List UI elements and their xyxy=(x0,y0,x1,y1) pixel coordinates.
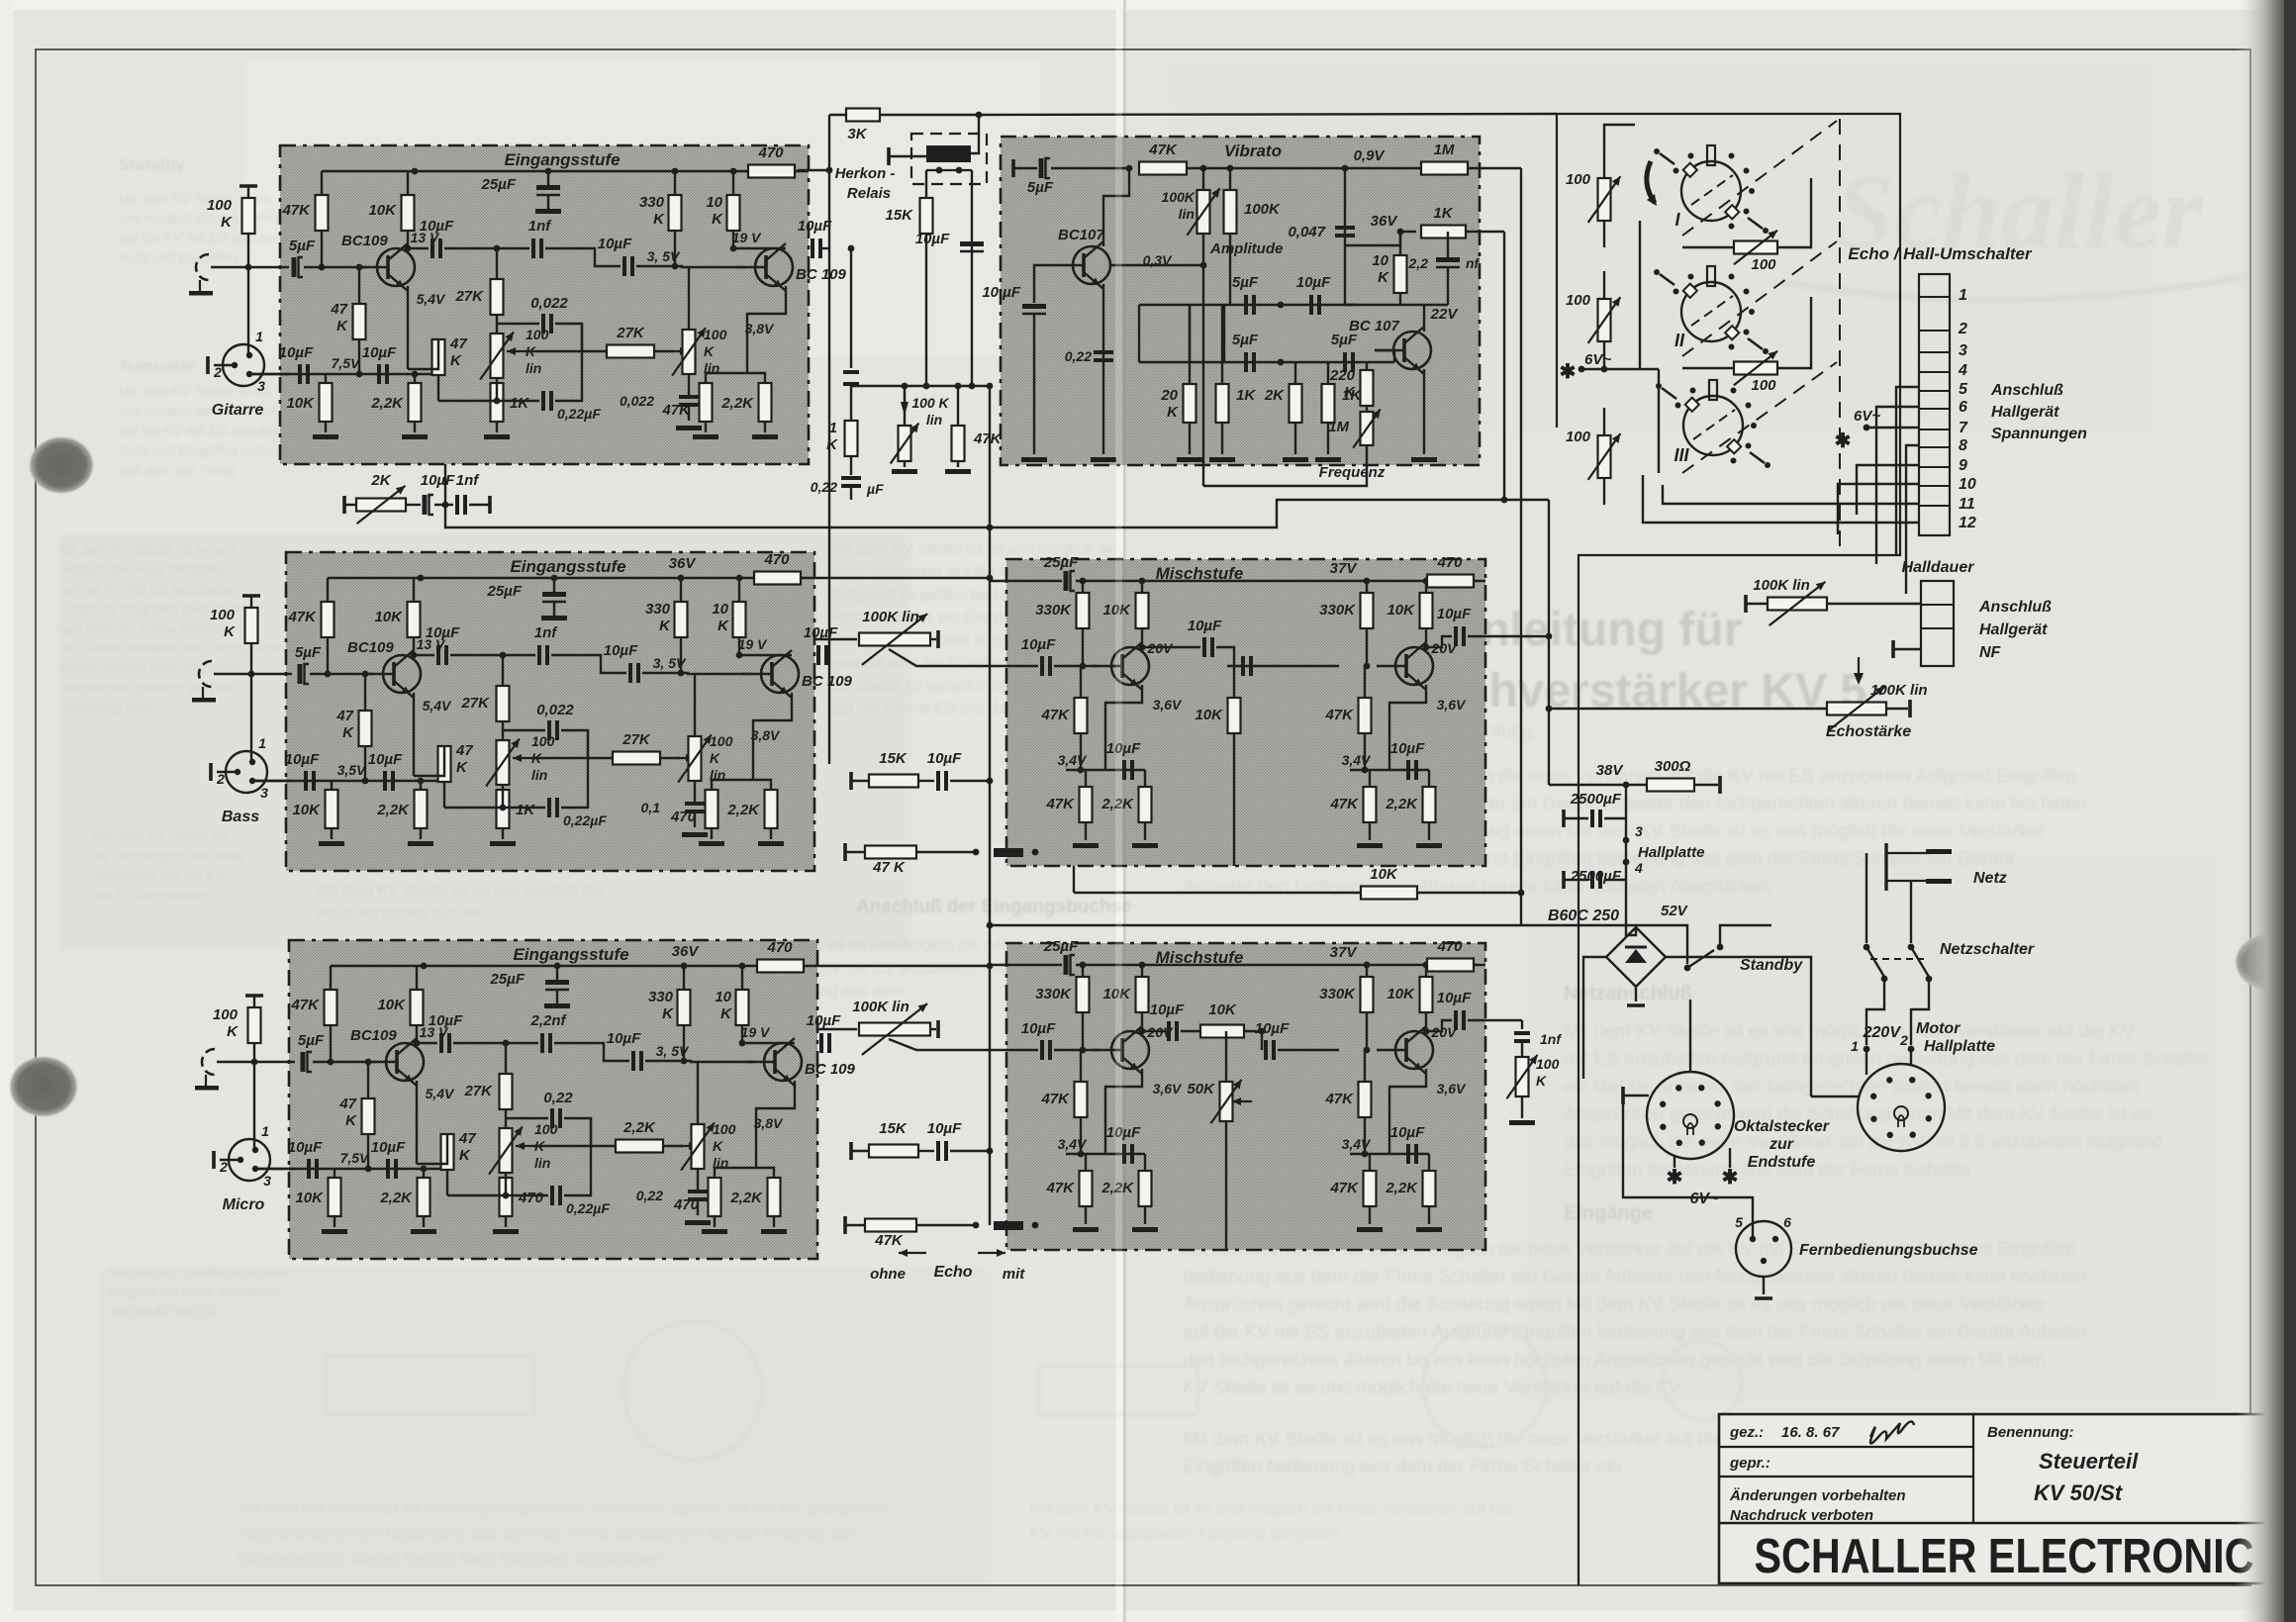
wire 25uF to ground xyxy=(556,991,558,1003)
resistor 100K xyxy=(1224,190,1282,234)
junction xyxy=(356,264,363,271)
wire to ground xyxy=(764,422,766,432)
capacitor 2,2nf xyxy=(529,1012,567,1053)
terminal xyxy=(242,594,260,598)
label 22V xyxy=(1430,306,1460,323)
svg-text:7: 7 xyxy=(1959,420,1968,436)
svg-text:47: 47 xyxy=(338,1096,356,1112)
svg-text:10: 10 xyxy=(1959,476,1976,493)
wire pot2 bottom xyxy=(697,1169,699,1190)
svg-text:5: 5 xyxy=(1959,381,1968,398)
svg-text:9: 9 xyxy=(1959,457,1967,474)
resistor 47K xyxy=(1329,787,1376,822)
svg-text:1: 1 xyxy=(258,735,266,751)
ground xyxy=(1209,457,1235,462)
svg-text:möglich die neue Verstärker: möglich die neue Verstärker xyxy=(59,561,232,577)
junction xyxy=(678,670,685,677)
wire 27K to pot xyxy=(496,315,498,334)
wire resistor top xyxy=(1327,362,1329,384)
label Vibrato xyxy=(1224,142,1282,160)
junction xyxy=(987,383,994,390)
svg-text:100: 100 xyxy=(704,327,727,342)
junction xyxy=(681,1058,688,1065)
wire emitter to 47K xyxy=(408,339,438,369)
switch strip Echo/Hall-Umschalter xyxy=(1919,274,1976,535)
svg-text:10K: 10K xyxy=(1195,707,1223,723)
wire 27K-h left xyxy=(525,350,607,352)
wire 47K top lead xyxy=(327,578,329,602)
svg-text:BC 109: BC 109 xyxy=(802,673,853,690)
svg-text:4: 4 xyxy=(1958,362,1967,379)
wire 47K top xyxy=(1080,1050,1082,1082)
wire 27K-h left xyxy=(533,1145,616,1147)
svg-text:2: 2 xyxy=(219,1159,228,1175)
wire to ground xyxy=(1085,1206,1087,1224)
wire lower bus xyxy=(1066,769,1145,771)
svg-text:10µF: 10µF xyxy=(362,344,397,361)
capacitor 0,022 xyxy=(530,295,568,334)
ground xyxy=(1357,843,1383,848)
wire 1K top xyxy=(496,383,498,401)
wire to 0,022 cap xyxy=(503,729,545,731)
wire 47K down xyxy=(443,782,445,808)
junction Herkon node xyxy=(826,167,833,174)
label 13V xyxy=(420,1024,449,1040)
svg-text:10 µF: 10 µF xyxy=(982,284,1020,301)
wire 2,2K top xyxy=(420,781,422,790)
potentiometer 100K xyxy=(672,327,726,376)
junction xyxy=(503,1193,510,1199)
capacitor 10µF xyxy=(279,344,314,384)
capacitor 10µF xyxy=(288,1139,323,1179)
junction xyxy=(405,245,412,252)
resistor 27K xyxy=(463,1074,512,1109)
svg-text:Ansprüchen gerecht wird die Sc: Ansprüchen gerecht wird die Schaltung ei… xyxy=(1183,1294,2046,1315)
label 3,6V xyxy=(1153,1081,1183,1097)
ground xyxy=(484,434,510,439)
label 0,9V xyxy=(1354,147,1387,164)
junction xyxy=(1601,366,1608,373)
svg-text:10µF: 10µF xyxy=(368,751,403,768)
junction xyxy=(739,963,746,970)
label 3,4V xyxy=(1058,752,1088,768)
labels 220V Motor Hallplatte 1 2 xyxy=(1851,1020,1995,1055)
wire drop to y505 xyxy=(1503,232,1505,500)
junction xyxy=(1278,359,1285,366)
svg-text:K: K xyxy=(342,724,354,741)
svg-text:3,4V: 3,4V xyxy=(1342,1136,1372,1152)
capacitor 0,22µF xyxy=(549,798,607,828)
svg-text:25µF: 25µF xyxy=(1043,554,1079,571)
resistor 47K xyxy=(1139,142,1187,175)
wire emitter chain xyxy=(712,779,753,781)
wire pot wiper to M2 input xyxy=(889,1039,1014,1050)
wire 0,22uF up xyxy=(555,324,582,401)
junction xyxy=(1342,165,1349,172)
wire lower bus xyxy=(1066,1153,1145,1155)
wire pin2 stub xyxy=(214,364,235,366)
capacitor 25µF xyxy=(490,971,570,990)
resistor 330K xyxy=(1319,977,1373,1012)
svg-text:3: 3 xyxy=(1635,823,1643,839)
ground xyxy=(544,1003,570,1008)
junction xyxy=(1908,1046,1915,1053)
capacitor 10µF xyxy=(1390,1124,1425,1164)
wire xyxy=(918,1150,934,1152)
svg-text:47K: 47K xyxy=(1324,1091,1354,1107)
wire xyxy=(406,504,421,506)
svg-text:3: 3 xyxy=(257,378,265,394)
wire rail M2 xyxy=(990,964,1014,966)
svg-text:330: 330 xyxy=(645,601,671,618)
ground xyxy=(493,1229,519,1234)
label Amplitude xyxy=(1209,240,1283,257)
capacitor 10µF xyxy=(807,1012,841,1053)
wire to Q2 base xyxy=(636,266,745,267)
relay Herkon-Relais dashed case xyxy=(911,134,987,184)
connector Fernbedienungsbuchse xyxy=(1735,1214,1977,1277)
terminal xyxy=(212,1151,216,1169)
capacitor 10µF xyxy=(1150,1002,1185,1041)
wire 10K top xyxy=(1425,581,1427,593)
capacitor 10µF xyxy=(804,624,838,665)
wire 27K to pot xyxy=(505,1109,507,1128)
junction xyxy=(1032,1222,1039,1229)
svg-text:SCHALLER ELECTRONIC: SCHALLER ELECTRONIC xyxy=(1755,1530,2254,1583)
ground xyxy=(693,434,718,439)
svg-text:0,022: 0,022 xyxy=(530,295,568,312)
wire NF stub xyxy=(1893,648,1921,650)
wire xyxy=(1278,1049,1279,1051)
svg-text:3: 3 xyxy=(260,785,268,801)
capacitor 10µF xyxy=(1437,606,1472,646)
svg-text:10µF: 10µF xyxy=(371,1139,406,1156)
resistor 15K xyxy=(885,198,932,234)
resistor 2,2K xyxy=(370,383,421,422)
terminal strip Hallgeraet xyxy=(1921,581,2052,666)
resistor 47K xyxy=(1040,1082,1087,1117)
svg-text:10µF: 10µF xyxy=(1390,1124,1425,1141)
svg-text:2K: 2K xyxy=(370,472,391,489)
svg-text:38V: 38V xyxy=(1596,762,1625,779)
wire 27K-h right xyxy=(654,350,674,352)
wire xyxy=(851,1150,869,1152)
resistor 330K xyxy=(1035,593,1089,628)
wire 25uF lead xyxy=(547,171,549,185)
svg-text:fachgerechten älteren bereits: fachgerechten älteren bereits kann höchs… xyxy=(238,1549,663,1568)
svg-text:Eingangsstufe: Eingangsstufe xyxy=(510,557,625,576)
resistor 1K xyxy=(826,420,857,456)
svg-text:1: 1 xyxy=(1851,1038,1859,1054)
wire 47K top xyxy=(1085,770,1087,787)
wire to ground xyxy=(1144,1206,1146,1224)
transistor BC 109 xyxy=(736,243,847,291)
wire to relay coil xyxy=(971,115,979,153)
svg-text:Änderungen vorbehalten: Änderungen vorbehalten xyxy=(1729,1487,1906,1504)
wire Q2 collector xyxy=(1423,305,1425,332)
dashed diagonal coupling xyxy=(1682,121,1837,473)
capacitor 5µF xyxy=(298,1032,325,1072)
wire 2,2K top xyxy=(1428,770,1430,787)
svg-text:470: 470 xyxy=(1436,938,1463,955)
svg-text:10µF: 10µF xyxy=(607,1030,641,1047)
label 2,2 nf xyxy=(1408,255,1481,271)
wire 10K top xyxy=(738,578,740,602)
svg-text:BC109: BC109 xyxy=(350,1027,397,1044)
wire xyxy=(1604,125,1635,150)
wire 330K bottom xyxy=(674,231,676,266)
junction xyxy=(248,671,255,678)
svg-text:Benennung:: Benennung: xyxy=(1987,1424,2074,1441)
svg-text:19 V: 19 V xyxy=(732,230,762,245)
resistor 100K xyxy=(210,607,258,643)
resistor 10K xyxy=(1102,593,1148,628)
wire coil left lead xyxy=(889,155,926,157)
wire 47K bias top xyxy=(364,674,366,711)
label 3,5V xyxy=(656,1043,690,1059)
label 5,4V xyxy=(426,1086,455,1101)
transistor BC109 xyxy=(350,1027,424,1086)
junction xyxy=(1080,663,1087,670)
wire 47K top xyxy=(1364,666,1366,698)
switch Netzschalter xyxy=(1864,944,1933,983)
svg-text:2500µF: 2500µF xyxy=(1570,791,1622,808)
capacitor 10µF xyxy=(927,1120,962,1161)
svg-text:Hallgerät: Hallgerät xyxy=(1991,404,2059,421)
svg-text:aus dem der Firma: aus dem der Firma xyxy=(119,462,236,478)
connector Netz xyxy=(1886,843,2007,891)
svg-text:3,8V: 3,8V xyxy=(745,321,775,336)
potentiometer 50K xyxy=(1187,1080,1241,1123)
wire 330K to base xyxy=(1366,1012,1368,1050)
terminal xyxy=(1891,640,1895,658)
resistor 330K xyxy=(1319,593,1373,628)
capacitor 25µF xyxy=(481,176,561,195)
capacitor 5µF xyxy=(295,644,322,684)
svg-text:auf die KV mit ES: auf die KV mit ES xyxy=(109,1303,218,1319)
terminal xyxy=(206,356,210,374)
wire 10K top lead xyxy=(416,966,418,990)
svg-text:10: 10 xyxy=(715,989,731,1005)
capacitor 2,2nf xyxy=(1436,257,1460,267)
svg-text:3,6V: 3,6V xyxy=(1437,1081,1467,1097)
wire pot2 top xyxy=(694,673,696,736)
wire 10K to collector xyxy=(413,637,415,655)
ground xyxy=(1132,843,1158,848)
wire to ground xyxy=(1144,822,1146,840)
svg-text:Eingangsstufe: Eingangsstufe xyxy=(513,945,628,964)
wire rail M1 xyxy=(990,580,1014,582)
wire 100K to pin1 xyxy=(253,1043,255,1149)
junction xyxy=(1623,859,1630,866)
fold crease overlay xyxy=(1115,0,1126,1622)
label Echostaerke xyxy=(1826,723,1911,740)
wire shielded input line xyxy=(217,1061,295,1063)
resistor 100K xyxy=(213,1006,261,1043)
svg-text:47K: 47K xyxy=(973,430,1003,447)
wire 2,2K top xyxy=(753,780,771,790)
switch pad xyxy=(994,848,1023,857)
svg-text:47: 47 xyxy=(330,301,347,318)
svg-text:2,2K: 2,2K xyxy=(729,1190,763,1206)
terminal xyxy=(245,994,263,998)
svg-text:10µF: 10µF xyxy=(429,1012,463,1029)
capacitor 10µF xyxy=(1390,740,1425,780)
junction xyxy=(1364,1047,1371,1054)
resistor 47K xyxy=(661,383,712,422)
wire pin6 xyxy=(1876,407,1919,564)
svg-text:1K: 1K xyxy=(516,802,535,818)
wire pot wiper to M1 input xyxy=(889,649,1014,666)
svg-text:auf die KV mit ES anzubieten: auf die KV mit ES anzubieten xyxy=(119,423,299,438)
svg-text:47K: 47K xyxy=(1040,1091,1070,1107)
svg-text:100: 100 xyxy=(213,1006,239,1023)
svg-text:100K: 100K xyxy=(1162,189,1196,205)
wire 10K bottom xyxy=(1399,293,1401,305)
capacitor coupling xyxy=(843,372,859,384)
svg-text:100: 100 xyxy=(1566,171,1591,188)
label Netzschalter xyxy=(1940,941,2035,958)
svg-text:100K: 100K xyxy=(1244,201,1281,218)
wire pin3 line xyxy=(252,780,292,782)
wire top rail xyxy=(1076,964,1485,966)
svg-text:3K: 3K xyxy=(847,126,867,143)
wire to III xyxy=(1658,369,1660,473)
svg-text:10µF: 10µF xyxy=(1255,1020,1290,1037)
svg-text:19 V: 19 V xyxy=(741,1024,771,1040)
label 3,8V xyxy=(754,1115,784,1131)
svg-text:330: 330 xyxy=(648,989,674,1005)
connector Motor/Hallplatte socket xyxy=(1858,1064,1945,1151)
label 3,6V xyxy=(1437,697,1467,713)
svg-text:2,2K: 2,2K xyxy=(726,802,760,818)
svg-text:15K: 15K xyxy=(879,750,908,767)
svg-text:0,22: 0,22 xyxy=(636,1188,663,1203)
svg-text:0,22: 0,22 xyxy=(543,1090,573,1106)
label 20V xyxy=(1147,640,1175,656)
svg-text:2,2: 2,2 xyxy=(1408,255,1429,271)
svg-text:Mit dem KV Stedle ist es uns m: Mit dem KV Stedle ist es uns möglich die… xyxy=(1029,1499,1513,1518)
wire 330K bottom xyxy=(683,1025,685,1061)
svg-text:1M: 1M xyxy=(1328,419,1349,435)
svg-text:Hallplatte: Hallplatte xyxy=(1924,1038,1995,1055)
transistor BC 109 xyxy=(745,1038,856,1086)
resistor 27K xyxy=(454,279,503,315)
wire pot1 down xyxy=(496,378,498,401)
svg-text:Mit dem KV Stedle ist es uns m: Mit dem KV Stedle ist es uns möglich die… xyxy=(1564,1021,2135,1042)
connector Bass (DIN socket) xyxy=(216,735,268,825)
svg-text:47K: 47K xyxy=(1329,1180,1359,1196)
svg-text:36V: 36V xyxy=(1371,213,1399,230)
junction xyxy=(551,575,558,582)
svg-text:✱: ✱ xyxy=(1722,1167,1739,1189)
wire 330K to base xyxy=(1082,1012,1084,1050)
ground xyxy=(752,434,778,439)
wire collector node to output xyxy=(739,654,792,656)
capacitor 0,1 xyxy=(641,800,705,815)
svg-text:27K: 27K xyxy=(454,288,484,305)
svg-text:100: 100 xyxy=(710,733,733,749)
label 20V xyxy=(1147,1024,1175,1040)
svg-text:10: 10 xyxy=(712,601,728,618)
wire 10K top xyxy=(1399,232,1401,255)
wire pot2 bottom xyxy=(694,781,696,802)
labels Anschluss Hallgeraet Spannungen xyxy=(1990,382,2087,442)
wire to output cap xyxy=(1426,636,1452,647)
svg-text:Mit dem KV Stedle ist es uns: Mit dem KV Stedle ist es uns xyxy=(59,541,237,557)
relay Herkon-Relais coil xyxy=(835,145,971,202)
svg-text:K: K xyxy=(1344,384,1356,401)
wire 47K bottom xyxy=(1080,1117,1082,1154)
label 13V xyxy=(417,636,446,652)
svg-text:47: 47 xyxy=(455,742,473,759)
wire shielded input line xyxy=(214,673,292,675)
capacitor 10µF xyxy=(1106,1124,1141,1164)
svg-text:100: 100 xyxy=(713,1121,736,1137)
wire pot lead xyxy=(1603,341,1605,368)
wire 10K to collector xyxy=(407,231,409,248)
capacitor 0,22 xyxy=(811,478,861,495)
svg-text:10µF: 10µF xyxy=(1390,740,1425,757)
capacitor 10µF xyxy=(798,218,832,258)
wire to output cap xyxy=(1426,1020,1452,1031)
wire collector to 10uF xyxy=(414,654,434,656)
label ohne Echo mit xyxy=(870,1249,1025,1283)
svg-text:0,22µF: 0,22µF xyxy=(566,1200,610,1216)
resistor 10K xyxy=(1200,1002,1244,1038)
junction xyxy=(1546,706,1553,713)
svg-text:10µF: 10µF xyxy=(927,1120,962,1137)
wire 2,2K top xyxy=(1428,1154,1430,1171)
svg-text:II: II xyxy=(1674,331,1685,350)
capacitor 10µF xyxy=(915,231,984,251)
wire 10K link xyxy=(1074,892,1521,894)
svg-text:10K: 10K xyxy=(1387,986,1415,1002)
capacitor 10µF xyxy=(1021,636,1056,676)
junction xyxy=(421,963,428,970)
rotary switch wafer I xyxy=(1654,145,1769,234)
junction xyxy=(1623,837,1630,844)
cable shield to ground xyxy=(195,1049,219,1091)
resistor 1K xyxy=(1216,384,1257,423)
wire to ground xyxy=(1369,1206,1371,1224)
wire pot1 down xyxy=(502,785,504,808)
wire 1K to ground xyxy=(496,422,498,432)
transistor BC 107 xyxy=(1349,318,1431,374)
pot 100K lin mid with down arrow xyxy=(901,386,950,428)
potentiometer 100 xyxy=(1566,171,1620,223)
wire resistor to ground xyxy=(1189,423,1191,454)
svg-text:220: 220 xyxy=(1329,367,1356,384)
wire xyxy=(1682,246,1734,248)
ground xyxy=(1357,1227,1383,1232)
svg-text:uns möglich die neue Verstärke: uns möglich die neue Verstärker auf die … xyxy=(1564,1132,2162,1153)
label 7,5V xyxy=(337,762,367,778)
svg-text:10µF: 10µF xyxy=(1150,1002,1185,1018)
capacitor 1nf xyxy=(1514,1031,1562,1047)
ground xyxy=(758,841,784,846)
label Mischstufe xyxy=(1156,948,1244,967)
wire E1 output xyxy=(819,247,829,249)
junction xyxy=(987,922,994,929)
svg-text:Mit dem KV Stedle ist es uns m: Mit dem KV Stedle ist es uns möglich die xyxy=(317,883,604,900)
svg-text:Frequenz: Frequenz xyxy=(1319,464,1386,481)
wire collector node to output xyxy=(733,247,786,249)
junction xyxy=(365,1059,372,1066)
wire to 0,022 cap xyxy=(506,1117,548,1119)
junction xyxy=(1080,1047,1087,1054)
wire to 10K xyxy=(1181,1030,1200,1032)
